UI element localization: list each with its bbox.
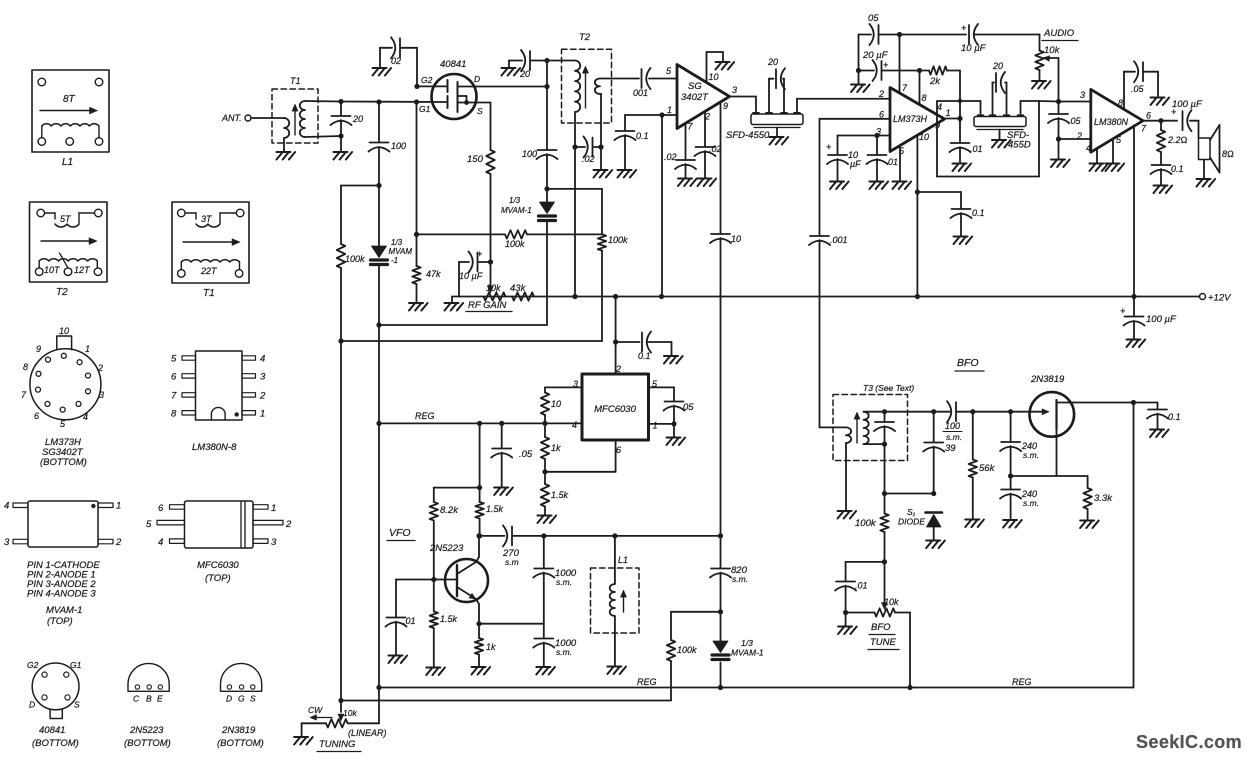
svg-text:01: 01 [888,157,898,167]
svg-text:2: 2 [97,363,103,373]
svg-text:100k: 100k [855,518,877,529]
svg-text:0.1: 0.1 [1171,164,1184,174]
svg-text:56k: 56k [979,463,996,474]
svg-text:1: 1 [271,503,276,514]
svg-text:S₁: S₁ [907,507,916,517]
svg-text:AUDIO: AUDIO [1043,28,1075,39]
svg-text:.02: .02 [582,154,595,164]
svg-text:2.2Ω: 2.2Ω [1167,135,1188,145]
svg-text:.01: .01 [855,581,868,591]
svg-text:10k: 10k [486,283,501,293]
svg-text:s.m.: s.m. [732,574,748,584]
svg-text:+: + [477,249,482,259]
svg-text:S: S [74,700,80,710]
svg-text:20: 20 [519,69,530,79]
svg-text:4: 4 [572,420,577,430]
svg-text:1: 1 [116,501,121,512]
svg-text:100k: 100k [677,645,697,655]
svg-text:+: + [1120,306,1125,316]
svg-text:+12V: +12V [1208,293,1232,304]
svg-text:D: D [474,74,480,84]
svg-text:8: 8 [1118,98,1123,108]
svg-text:T1: T1 [290,76,301,86]
svg-text:2: 2 [878,89,884,99]
svg-text:+: + [961,23,966,33]
svg-text:47k: 47k [426,269,441,279]
svg-text:TUNING: TUNING [319,739,355,750]
svg-text:LM380N-8: LM380N-8 [192,442,237,453]
svg-text:TUNE: TUNE [870,637,897,648]
svg-text:s.m: s.m [505,557,519,567]
svg-text:2: 2 [259,390,266,401]
svg-text:VFO: VFO [389,527,411,539]
svg-text:1: 1 [946,108,951,118]
svg-text:8T: 8T [63,94,76,105]
svg-text:10: 10 [709,72,719,82]
svg-text:.05: .05 [1131,84,1145,94]
svg-text:1k: 1k [486,642,496,652]
svg-text:RF GAIN: RF GAIN [468,300,506,311]
svg-text:PIN 4-ANODE 3: PIN 4-ANODE 3 [27,589,96,600]
svg-text:B: B [146,694,152,704]
svg-text:REG: REG [637,677,657,687]
svg-text:S: S [250,694,256,704]
svg-text:4: 4 [260,354,265,365]
svg-text:2N5223: 2N5223 [429,543,464,554]
svg-text:.001: .001 [830,235,848,245]
svg-text:12T: 12T [74,265,91,275]
svg-text:D: D [29,700,35,710]
svg-text:0.1: 0.1 [638,351,651,361]
svg-text:1/3: 1/3 [741,638,753,648]
svg-text:(TOP): (TOP) [205,573,231,584]
svg-text:100k: 100k [608,235,628,245]
svg-text:22T: 22T [200,266,218,276]
svg-text:10T: 10T [44,265,61,275]
svg-text:150: 150 [467,154,484,165]
svg-text:s.m.: s.m. [1023,498,1039,508]
svg-text:BFO: BFO [957,357,979,369]
svg-text:5: 5 [146,519,152,530]
svg-text:s.m.: s.m. [946,432,962,442]
svg-text:7: 7 [171,390,177,401]
svg-text:SFD-4550: SFD-4550 [726,130,770,141]
svg-text:s.m.: s.m. [556,647,572,657]
svg-text:3: 3 [271,537,277,548]
svg-text:LM380N: LM380N [1094,117,1129,127]
svg-text:MVAM: MVAM [389,247,413,256]
svg-text:10: 10 [551,399,561,409]
svg-text:5: 5 [171,354,177,365]
svg-text:100: 100 [391,141,406,151]
svg-text:3T: 3T [201,214,213,224]
svg-text:10: 10 [919,132,929,142]
svg-text:6: 6 [616,445,621,455]
svg-text:SG: SG [688,81,702,92]
svg-text:9: 9 [36,344,41,354]
svg-text:1/3: 1/3 [509,196,521,205]
svg-text:LM373H: LM373H [893,114,928,124]
svg-text:-1: -1 [391,256,398,265]
svg-text:455D: 455D [1008,140,1031,151]
svg-text:1: 1 [260,408,265,419]
svg-text:8: 8 [922,93,927,103]
svg-text:L1: L1 [618,555,628,565]
svg-text:1k: 1k [551,443,561,453]
svg-text:43k: 43k [510,283,527,294]
svg-text:SeekIC.com: SeekIC.com [1136,732,1242,752]
svg-text:1.5k: 1.5k [486,504,504,514]
svg-text:G2: G2 [27,660,39,670]
svg-text:s.m.: s.m. [556,577,572,587]
svg-text:40841: 40841 [440,59,466,70]
svg-text:2N3819: 2N3819 [1030,374,1065,385]
svg-text:L1: L1 [62,157,73,168]
svg-text:4: 4 [4,501,9,512]
svg-text:1: 1 [85,344,90,354]
svg-text:1: 1 [667,105,672,115]
svg-text:20 µF: 20 µF [862,50,889,61]
svg-text:1: 1 [653,421,658,431]
svg-text:100k: 100k [505,239,525,249]
svg-text:6: 6 [171,371,177,382]
svg-text:100: 100 [945,421,960,431]
svg-text:2k: 2k [929,76,941,87]
svg-text:8.2k: 8.2k [440,505,459,516]
svg-text:0.1: 0.1 [636,131,649,141]
svg-text:2: 2 [1076,131,1082,141]
svg-text:1.5k: 1.5k [440,614,458,624]
svg-text:20: 20 [992,61,1003,71]
svg-text:8: 8 [171,408,177,419]
svg-text:T3 (See Text): T3 (See Text) [863,383,914,393]
svg-text:MFC6030: MFC6030 [594,404,636,415]
svg-text:0.1: 0.1 [1168,412,1181,422]
svg-text:100: 100 [522,149,537,159]
svg-text:3: 3 [1080,90,1085,100]
svg-text:(LINEAR): (LINEAR) [348,728,387,738]
svg-text:0.1: 0.1 [972,208,985,218]
svg-text:ANT.: ANT. [221,113,242,123]
svg-text:G2: G2 [421,75,433,85]
svg-text:G1: G1 [70,660,82,670]
svg-text:2: 2 [115,537,122,548]
svg-text:REG: REG [415,411,435,421]
svg-text:.01: .01 [970,144,983,154]
svg-text:T1: T1 [203,288,215,299]
svg-text:MVAM-1: MVAM-1 [731,648,764,658]
svg-text:+: + [826,142,831,152]
svg-text:REG: REG [1012,677,1032,687]
svg-text:6: 6 [1146,111,1151,121]
svg-text:(BOTTOM): (BOTTOM) [40,457,87,468]
svg-text:+: + [883,60,888,70]
svg-text:.05: .05 [1068,116,1082,126]
svg-text:1.5k: 1.5k [551,490,569,500]
svg-text:05: 05 [683,402,694,413]
svg-text:3: 3 [732,85,737,95]
svg-text:3402T: 3402T [681,92,709,103]
svg-text:6: 6 [34,411,39,421]
svg-text:G1: G1 [419,104,431,114]
svg-text:4: 4 [158,537,163,548]
svg-text:(BOTTOM): (BOTTOM) [217,738,264,749]
svg-text:40841: 40841 [39,725,65,736]
svg-text:2N5223: 2N5223 [129,725,164,736]
svg-text:D: D [226,694,232,704]
svg-text:6: 6 [158,503,164,514]
svg-text:2: 2 [285,519,292,530]
svg-text:001: 001 [633,88,648,98]
svg-text:8Ω: 8Ω [1222,149,1234,159]
svg-text:3: 3 [4,537,10,548]
svg-text:C: C [133,694,140,704]
svg-text:4: 4 [83,412,88,422]
svg-text:MVAM-1: MVAM-1 [46,605,82,616]
svg-text:100k: 100k [345,254,365,264]
svg-text:10 µF: 10 µF [961,43,987,54]
svg-text:10k: 10k [1044,45,1061,56]
svg-text:100 µF: 100 µF [1146,314,1177,325]
svg-text:10k: 10k [343,708,357,718]
svg-text:(TOP): (TOP) [47,616,73,627]
svg-text:T2: T2 [56,287,68,298]
svg-text:100 µF: 100 µF [1172,99,1203,110]
svg-text:E: E [157,694,163,704]
svg-text:10k: 10k [884,597,899,607]
svg-text:9: 9 [723,101,728,111]
svg-text:BFO: BFO [871,622,891,633]
svg-text:5T: 5T [60,214,72,224]
svg-text:10: 10 [731,234,741,244]
svg-text:T2: T2 [579,32,591,43]
svg-text:8: 8 [23,362,28,372]
svg-text:.01: .01 [403,616,416,626]
svg-text:05: 05 [868,13,879,24]
svg-text:3: 3 [260,371,266,382]
svg-text:MVAM-1: MVAM-1 [501,206,532,215]
svg-text:20: 20 [767,57,778,67]
svg-text:(BOTTOM): (BOTTOM) [32,738,79,749]
svg-text:S: S [477,106,483,116]
svg-text:CW: CW [308,705,323,715]
svg-text:10: 10 [59,326,69,336]
svg-text:µF: µF [850,159,861,169]
svg-text:3: 3 [99,390,104,400]
svg-text:DIODE: DIODE [898,517,925,527]
svg-text:s.m.: s.m. [1023,450,1039,460]
svg-text:4: 4 [1086,143,1091,153]
svg-text:3.3k: 3.3k [1094,493,1113,504]
svg-text:G: G [238,694,245,704]
svg-text:1/3: 1/3 [391,238,403,247]
svg-text:10 µF: 10 µF [459,271,483,281]
svg-text:2N3819: 2N3819 [221,725,256,736]
svg-text:39: 39 [945,443,956,454]
svg-text:MFC6030: MFC6030 [197,560,239,571]
svg-text:.02: .02 [664,152,677,162]
svg-text:(BOTTOM): (BOTTOM) [124,738,171,749]
svg-text:02: 02 [391,56,401,66]
svg-text:.05: .05 [519,449,533,460]
svg-text:20: 20 [352,114,363,124]
